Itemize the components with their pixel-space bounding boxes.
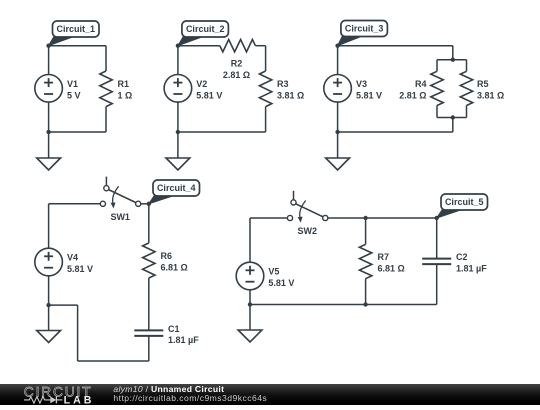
- node bottom circuit 2: [176, 130, 180, 134]
- svg-text:V2: V2: [196, 79, 207, 89]
- wire V5 bottom lead: [249, 290, 251, 305]
- svg-text:V4: V4: [67, 253, 78, 263]
- svg-text:C1: C1: [168, 324, 180, 334]
- voltage source V4 5.81 V: [35, 248, 93, 276]
- svg-text:6.81 Ω: 6.81 Ω: [161, 263, 188, 273]
- node top-left circuit 2: [176, 44, 180, 48]
- ground circuit 3: [326, 132, 350, 170]
- node bottom circuit 3: [335, 130, 339, 134]
- voltage source V1 5 V: [35, 75, 81, 103]
- svg-text:Circuit_2: Circuit_2: [186, 24, 225, 34]
- svg-text:Circuit_3: Circuit_3: [345, 24, 384, 34]
- svg-text:R2: R2: [231, 59, 243, 69]
- svg-text:1.81 µF: 1.81 µF: [168, 335, 199, 345]
- wire top circuit 3: [338, 45, 453, 47]
- switch SW2 (SPDT toggle): [287, 191, 328, 236]
- wire bottom circuit 1: [49, 131, 106, 133]
- label callout Circuit_5: [437, 194, 488, 218]
- node R7 bottom: [363, 302, 367, 306]
- wire top circuit 1: [49, 45, 106, 47]
- node V5 bottom: [248, 302, 252, 306]
- wire switch SW2 left to V5: [250, 217, 287, 219]
- svg-text:C2: C2: [456, 252, 468, 262]
- node V4 bottom: [46, 303, 50, 307]
- node circuit 4 (switch output): [147, 202, 151, 206]
- footer text line 1: alym10 / Unnamed Circuit: [113, 384, 224, 394]
- svg-text:Circuit_4: Circuit_4: [157, 183, 196, 193]
- CircuitLab logo: [24, 383, 95, 406]
- label callout Circuit_1: [49, 21, 99, 46]
- wire V3 bottom lead: [337, 102, 339, 132]
- voltage source V2 5.81 V: [164, 75, 222, 103]
- svg-text:LAB: LAB: [64, 394, 95, 405]
- resistor R4 2.81 Ohm: [399, 60, 443, 118]
- svg-text:1 Ω: 1 Ω: [118, 90, 133, 100]
- svg-text:5.81 V: 5.81 V: [268, 278, 294, 288]
- wire switch SW2 common to C2 top: [328, 217, 437, 219]
- node top-left circuit 3: [335, 44, 339, 48]
- capacitor C2 1.81 uF: [422, 218, 487, 305]
- wire V4 bottom lead: [48, 276, 50, 305]
- node bottom circuit 1: [46, 130, 50, 134]
- svg-text:V1: V1: [67, 79, 78, 89]
- wire V4 top lead: [48, 204, 50, 249]
- wire C1 bottom lead: [148, 336, 150, 361]
- switch SW1 (SPDT toggle): [100, 177, 140, 222]
- wire top-right circuit 2: [255, 45, 265, 47]
- svg-text:1.81 µF: 1.81 µF: [456, 264, 487, 274]
- wire bottom circuit 5: [250, 304, 437, 306]
- resistor R2 2.81 Ohm (horizontal): [220, 40, 256, 81]
- footer bar: [0, 384, 540, 405]
- svg-text:5.81 V: 5.81 V: [67, 264, 93, 274]
- wire V2 top lead: [177, 46, 179, 75]
- wire to V4 bottom node: [49, 304, 78, 306]
- svg-text:5 V: 5 V: [67, 90, 81, 100]
- node parallel top: [451, 58, 455, 62]
- voltage source V3 5.81 V: [324, 75, 382, 103]
- resistor R1 1 Ohm: [100, 46, 132, 132]
- svg-text:Circuit_5: Circuit_5: [445, 197, 484, 207]
- wire left circuit 1 (V1 top lead): [48, 46, 50, 75]
- svg-text:3.81 Ω: 3.81 Ω: [477, 90, 504, 100]
- wire parallel bottom bar: [437, 117, 467, 119]
- wire bottom circuit 3: [338, 131, 453, 133]
- svg-text:3.81 Ω: 3.81 Ω: [277, 90, 304, 100]
- wire V1 bottom lead: [48, 102, 50, 132]
- svg-text:V5: V5: [268, 267, 279, 277]
- svg-text:http://circuitlab.com/c9ms3d9k: http://circuitlab.com/c9ms3d9kcc64s: [113, 393, 267, 403]
- footer text line 2: circuit URL: [113, 393, 267, 403]
- ground circuit 2: [166, 132, 190, 170]
- svg-text:V3: V3: [356, 79, 367, 89]
- wire V5 top lead: [249, 218, 251, 262]
- svg-text:R6: R6: [161, 251, 173, 261]
- svg-text:R5: R5: [477, 79, 489, 89]
- wire down to parallel pair: [452, 46, 454, 60]
- wire parallel top bar: [437, 59, 467, 61]
- voltage source V5 5.81 V: [236, 262, 294, 290]
- svg-text:R7: R7: [378, 252, 390, 262]
- wire top-left circuit 2: [178, 45, 220, 47]
- resistor R7 6.81 Ohm: [359, 218, 404, 305]
- capacitor C1 1.81 uF: [134, 324, 199, 345]
- svg-text:5.81 V: 5.81 V: [356, 90, 382, 100]
- ground circuit 5: [238, 305, 262, 343]
- node top-left circuit 1: [46, 44, 50, 48]
- svg-text:R4: R4: [415, 79, 427, 89]
- wire V3 top lead: [337, 46, 339, 75]
- resistor R5 3.81 Ohm: [460, 60, 504, 118]
- svg-text:2.81 Ω: 2.81 Ω: [223, 70, 250, 80]
- wire bottom circuit 2: [178, 131, 266, 133]
- label callout Circuit_2: [178, 21, 229, 46]
- svg-text:SW2: SW2: [298, 226, 318, 236]
- svg-text:R1: R1: [118, 79, 130, 89]
- wire from parallel pair down: [452, 118, 454, 133]
- svg-text:2.81 Ω: 2.81 Ω: [399, 90, 426, 100]
- node R7 top: [363, 216, 367, 220]
- svg-text:SW1: SW1: [110, 212, 130, 222]
- wire switch SW1 common to node: [141, 203, 149, 205]
- wire bottom circuit 4: [78, 360, 149, 362]
- svg-text:Circuit_1: Circuit_1: [57, 24, 96, 34]
- label callout Circuit_3: [338, 21, 388, 46]
- svg-text:6.81 Ω: 6.81 Ω: [378, 264, 405, 274]
- label callout Circuit_4: [149, 180, 200, 204]
- ground circuit 4: [37, 305, 61, 342]
- node C2 top / circuit 5 label node: [435, 216, 439, 220]
- svg-text:R3: R3: [277, 79, 289, 89]
- svg-text:5.81 V: 5.81 V: [196, 90, 222, 100]
- ground circuit 1: [37, 132, 61, 170]
- wire riser circuit 4: [77, 305, 79, 361]
- wire switch SW1 left to V4: [49, 203, 101, 205]
- resistor R6 6.81 Ohm: [143, 204, 188, 331]
- wire V2 bottom lead: [177, 102, 179, 132]
- resistor R3 3.81 Ohm: [259, 46, 304, 132]
- node parallel bottom: [451, 115, 455, 119]
